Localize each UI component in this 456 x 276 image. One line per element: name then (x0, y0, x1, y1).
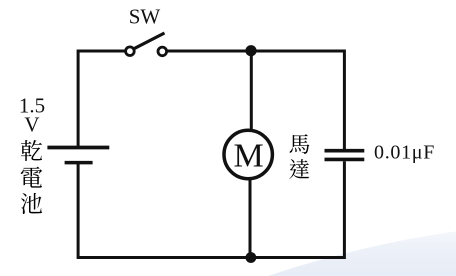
svg-text:M: M (233, 138, 263, 175)
node B (bottom junction) (246, 252, 257, 263)
svg-text:SW: SW (129, 4, 161, 28)
wire: top segment from switch through node A to top-right corner, down to capacitor top plate (167, 51, 345, 149)
svg-text:0.01μF: 0.01μF (374, 142, 435, 164)
motor M circle (224, 130, 272, 178)
node A (top junction) (245, 45, 256, 56)
label battery 池 (21, 193, 42, 214)
battery BT1 short plate (-) (65, 161, 93, 165)
label motor 馬 (290, 134, 310, 154)
label battery 乾 (21, 140, 42, 161)
capacitor C1 top plate (325, 149, 365, 153)
wire: motor branch top stem from node A (250, 51, 253, 131)
switch SW (126, 33, 167, 56)
wire: battery negative down, bottom wire, up to capacitor bottom plate (78, 161, 344, 257)
label battery 電 (21, 167, 43, 188)
svg-text:V: V (24, 112, 39, 136)
wire: left vertical upper + top-left segment to switch (78, 51, 126, 147)
wire: motor branch bottom stem to node B (249, 179, 252, 258)
battery BT1 long plate (+) (47, 146, 109, 150)
label motor 達 (289, 159, 309, 179)
capacitor C1 bottom plate (325, 158, 365, 162)
